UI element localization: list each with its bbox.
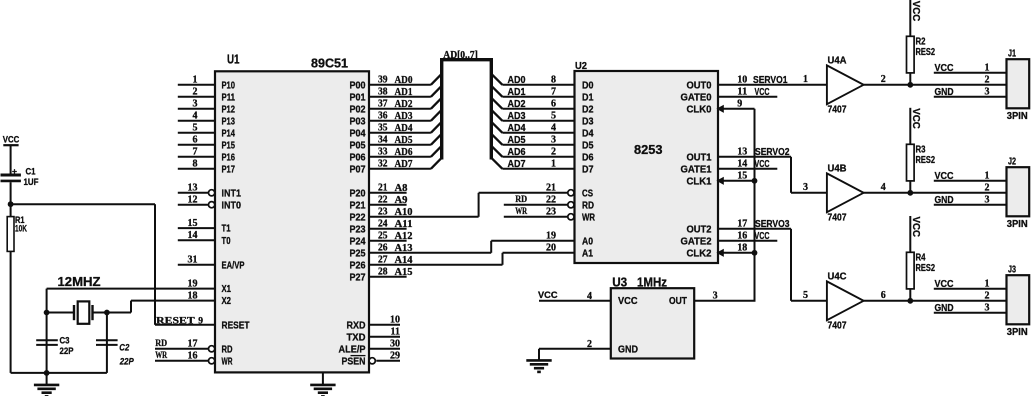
ground (U1)	[310, 372, 335, 396]
label 89C51	[311, 56, 348, 70]
svg-text:18: 18	[188, 290, 198, 301]
svg-text:AD6: AD6	[508, 147, 526, 158]
svg-text:+: +	[12, 166, 17, 176]
node: CLK2 junction	[752, 250, 758, 256]
U2 pin 10 OUT0 / net SERVO1	[687, 75, 827, 92]
svg-text:RESET: RESET	[156, 317, 195, 327]
wire: AD3 bus exit (right)	[491, 110, 502, 121]
svg-text:GATE0: GATE0	[681, 92, 712, 103]
svg-text:D0: D0	[582, 80, 594, 91]
svg-text:2: 2	[985, 290, 990, 301]
svg-text:WR: WR	[515, 207, 527, 217]
U1 pin 13 INT1	[178, 183, 242, 200]
svg-text:CLK1: CLK1	[687, 176, 712, 187]
svg-text:P06: P06	[350, 152, 366, 163]
U1 pin 3 P12	[178, 99, 236, 116]
wire: A14 to A1	[502, 253, 504, 265]
svg-text:U4A: U4A	[828, 55, 847, 66]
wire: AD4 bus entry (left)	[431, 122, 442, 133]
label 12MHZ	[58, 274, 101, 289]
svg-text:AD0: AD0	[508, 75, 526, 86]
IC U3 1MHz oscillator body	[611, 288, 694, 358]
svg-text:3: 3	[985, 86, 990, 97]
node: R3 output junction	[907, 190, 913, 196]
node: CLK1 junction	[752, 178, 758, 184]
svg-text:P25: P25	[350, 248, 366, 259]
U1 pin 9 RESET	[222, 320, 250, 331]
svg-text:D3: D3	[582, 116, 594, 127]
U2 pin 8 D0 / net AD0	[502, 75, 593, 92]
svg-text:U4B: U4B	[828, 163, 847, 174]
svg-text:10: 10	[737, 75, 747, 86]
svg-text:TXD: TXD	[347, 332, 366, 343]
svg-text:6: 6	[551, 99, 556, 110]
U1 pin 23 P22 / net A10	[350, 207, 479, 224]
svg-text:P26: P26	[350, 260, 366, 271]
svg-text:RES2: RES2	[916, 47, 936, 58]
svg-text:3: 3	[551, 135, 556, 146]
svg-text:21: 21	[546, 183, 556, 194]
node: C1/R1/reset junction	[8, 201, 14, 207]
wire: AD3 bus entry (left)	[431, 110, 442, 121]
U1 pin 39 P00 / net AD0	[350, 75, 431, 92]
U2 pin 21 CS	[479, 183, 594, 200]
U1 pin 17 RD	[155, 339, 233, 356]
label U3 1MHz	[612, 274, 667, 289]
svg-text:P10: P10	[222, 80, 236, 91]
svg-text:8: 8	[551, 75, 556, 86]
svg-text:10: 10	[390, 315, 400, 326]
svg-text:26: 26	[378, 243, 388, 254]
connector J2 3PIN	[934, 157, 1029, 230]
svg-text:RD: RD	[155, 339, 167, 349]
svg-text:AD3: AD3	[508, 111, 526, 122]
svg-text:D4: D4	[582, 128, 594, 139]
svg-text:1: 1	[803, 74, 808, 85]
svg-text:AD4: AD4	[395, 123, 413, 134]
svg-text:OUT2: OUT2	[687, 224, 712, 235]
svg-text:AD6: AD6	[395, 147, 413, 158]
U1 pin 18 X2	[188, 290, 232, 307]
svg-text:P14: P14	[222, 128, 236, 139]
svg-text:OUT: OUT	[669, 296, 687, 307]
wire: AD6 bus entry (left)	[431, 146, 442, 157]
svg-text:25: 25	[378, 231, 388, 242]
label 8253	[634, 142, 663, 157]
svg-text:D7: D7	[582, 164, 594, 175]
svg-text:AD3: AD3	[395, 111, 413, 122]
U2 pin 16 GATE2 / net VCC	[681, 231, 778, 248]
ground (U3)	[526, 349, 551, 372]
svg-text:9: 9	[737, 99, 742, 110]
svg-text:PSEN: PSEN	[342, 356, 366, 367]
svg-text:D6: D6	[582, 152, 594, 163]
U2 pin 2 D6 / net AD6	[502, 147, 593, 164]
svg-text:17: 17	[188, 339, 198, 350]
svg-text:30: 30	[390, 339, 400, 350]
svg-text:23: 23	[378, 207, 388, 218]
wire: A13 to A0	[490, 241, 492, 253]
svg-text:2: 2	[587, 339, 592, 350]
resistor R4 RES2 pullup	[907, 216, 936, 301]
svg-text:7407: 7407	[828, 320, 847, 331]
svg-text:P02: P02	[350, 104, 366, 115]
U3 pin 4 VCC / net VCC	[538, 290, 638, 307]
svg-text:J2: J2	[1008, 157, 1016, 168]
U2 pin 9 CLK0	[687, 99, 755, 116]
svg-text:14: 14	[188, 230, 198, 241]
node: R2 output junction	[907, 82, 913, 88]
U2 pin 20 A1	[503, 243, 594, 260]
svg-text:13: 13	[188, 183, 198, 194]
wire: AD1 bus exit (right)	[491, 86, 502, 97]
svg-text:RD: RD	[222, 344, 233, 355]
svg-text:R3: R3	[916, 145, 926, 156]
svg-text:P20: P20	[350, 188, 366, 199]
svg-text:EA/VP: EA/VP	[222, 260, 245, 271]
svg-text:U3: U3	[612, 274, 627, 289]
svg-text:3PIN: 3PIN	[1007, 111, 1028, 122]
svg-text:31: 31	[188, 255, 198, 266]
svg-text:AD7: AD7	[395, 159, 413, 170]
U1 pin 2 P11	[178, 87, 236, 104]
svg-text:2: 2	[985, 182, 990, 193]
wire: junction to reset vertical	[11, 203, 155, 205]
svg-text:U2: U2	[575, 60, 587, 72]
U1 pin 27 P26 / net A14	[350, 255, 503, 272]
svg-text:1: 1	[985, 278, 990, 289]
svg-text:22: 22	[546, 195, 556, 206]
crystal Y1 12MHZ	[47, 301, 107, 323]
svg-text:R2: R2	[916, 37, 926, 48]
svg-text:1: 1	[985, 62, 990, 73]
U2 pin 1 D7 / net AD7	[502, 159, 593, 176]
svg-text:WR: WR	[155, 351, 167, 361]
svg-text:CS: CS	[582, 188, 593, 199]
svg-text:J1: J1	[1008, 49, 1016, 60]
svg-text:3: 3	[193, 99, 198, 110]
svg-text:12MHZ: 12MHZ	[58, 274, 101, 289]
svg-text:89C51: 89C51	[311, 56, 348, 70]
bus AD[0..7]	[442, 58, 492, 160]
svg-text:AD5: AD5	[508, 135, 526, 146]
wire: crystal right leg vertical	[106, 313, 108, 373]
svg-text:AD2: AD2	[395, 99, 413, 110]
U2 pin 18 CLK2	[687, 243, 755, 260]
svg-text:A11: A11	[395, 219, 413, 230]
svg-text:GND: GND	[935, 303, 954, 314]
svg-text:3: 3	[985, 194, 990, 205]
wire: ground rail under crystal circuit	[11, 372, 107, 374]
U1 pin 7 P16	[178, 147, 236, 164]
svg-text:P13: P13	[222, 116, 236, 127]
wire: SERVO2 vertical to U4B	[791, 157, 827, 193]
svg-text:VCC: VCC	[935, 171, 954, 182]
wire: X1 wire from crystal left leg to U1	[47, 288, 215, 290]
U1 pin 36 P03 / net AD3	[350, 111, 431, 128]
svg-text:D5: D5	[582, 140, 594, 151]
U1 pin 30 ALE/P	[339, 339, 401, 356]
svg-text:WR: WR	[222, 356, 234, 367]
svg-text:RXD: RXD	[347, 320, 366, 331]
U1 pin 29 PSEN	[342, 351, 401, 368]
svg-text:T1: T1	[222, 224, 231, 235]
svg-text:A8: A8	[395, 183, 408, 194]
svg-text:C1: C1	[26, 166, 37, 177]
svg-text:3: 3	[713, 291, 718, 302]
svg-text:15: 15	[737, 171, 747, 182]
svg-text:VCC: VCC	[910, 1, 921, 22]
U2 pin 17 OUT2 / net SERVO3	[687, 219, 792, 236]
svg-text:CLK0: CLK0	[687, 104, 712, 115]
svg-text:GATE2: GATE2	[681, 236, 712, 247]
svg-text:3PIN: 3PIN	[1007, 327, 1028, 338]
U2 pin 11 GATE0 / net VCC	[681, 87, 778, 104]
wire: AD5 bus exit (right)	[491, 134, 502, 145]
svg-text:AD0: AD0	[395, 75, 413, 86]
svg-text:2: 2	[193, 87, 198, 98]
wire: crystal left leg vertical	[46, 289, 48, 373]
svg-text:A0: A0	[582, 236, 593, 247]
svg-text:A1: A1	[582, 248, 593, 259]
buffer U4B 7407	[803, 163, 886, 223]
svg-text:RD: RD	[582, 200, 594, 211]
wire: U4A output to J1	[864, 84, 1007, 86]
wire: AD7 bus exit (right)	[491, 158, 502, 169]
svg-text:VCC: VCC	[910, 108, 921, 129]
svg-text:23: 23	[546, 207, 556, 218]
U1 pin 16 WR	[155, 351, 233, 368]
svg-text:38: 38	[378, 87, 388, 98]
svg-text:5: 5	[803, 290, 808, 301]
svg-text:3: 3	[803, 182, 808, 193]
resistor R1 10K	[7, 204, 27, 373]
svg-text:29: 29	[390, 351, 400, 362]
svg-text:19: 19	[188, 278, 198, 289]
svg-text:A9: A9	[395, 195, 408, 206]
U1 pin 22 P21 / net A9	[350, 195, 408, 212]
svg-text:U1: U1	[227, 53, 240, 67]
svg-text:SERVO2: SERVO2	[755, 147, 790, 158]
buffer U4A 7407	[803, 55, 886, 115]
svg-text:A14: A14	[395, 255, 413, 266]
wire: AD1 bus entry (left)	[431, 86, 442, 97]
svg-text:7407: 7407	[828, 212, 847, 223]
wire: U4C output to J3	[864, 300, 1007, 302]
U2 pin 3 D5 / net AD5	[502, 135, 593, 152]
svg-text:12: 12	[188, 195, 198, 206]
svg-text:D2: D2	[582, 104, 594, 115]
U2 pin 4 D4 / net AD4	[502, 123, 593, 140]
svg-text:2: 2	[881, 74, 886, 85]
svg-text:INT1: INT1	[222, 188, 242, 199]
U1 pin 15 T1	[178, 218, 231, 235]
svg-text:VCC: VCC	[618, 296, 638, 307]
svg-text:AD4: AD4	[508, 123, 526, 134]
svg-text:J3: J3	[1008, 265, 1016, 276]
svg-text:20: 20	[546, 243, 556, 254]
svg-text:6: 6	[193, 135, 198, 146]
svg-text:2: 2	[551, 147, 556, 158]
svg-text:VCC: VCC	[935, 63, 954, 74]
svg-text:AD7: AD7	[508, 159, 526, 170]
svg-text:4: 4	[587, 291, 592, 302]
svg-text:P17: P17	[222, 164, 236, 175]
svg-text:P12: P12	[222, 104, 236, 115]
svg-text:VCC: VCC	[538, 290, 558, 301]
net label RD (left)	[155, 339, 167, 349]
svg-text:37: 37	[378, 99, 388, 110]
svg-text:14: 14	[737, 159, 747, 170]
svg-text:R4: R4	[916, 253, 926, 264]
svg-text:1: 1	[985, 170, 990, 181]
svg-text:35: 35	[378, 123, 388, 134]
svg-text:27: 27	[378, 255, 388, 266]
svg-text:GND: GND	[935, 87, 954, 98]
svg-text:AD1: AD1	[395, 87, 413, 98]
capacitor C3 22P	[36, 336, 74, 357]
svg-text:5: 5	[551, 111, 556, 122]
capacitor C1 1UF (polarized)	[1, 166, 39, 204]
U1 pin 12 INT0	[178, 195, 242, 212]
U2 pin 19 A0	[491, 231, 593, 248]
svg-text:24: 24	[378, 219, 388, 230]
svg-text:OUT1: OUT1	[687, 152, 712, 163]
svg-text:32: 32	[378, 159, 388, 170]
wire: RESET wire into U1	[155, 324, 215, 326]
resistor R3 RES2 pullup	[907, 108, 936, 193]
svg-text:7: 7	[551, 87, 556, 98]
svg-text:CLK2: CLK2	[687, 248, 712, 259]
svg-text:P01: P01	[350, 92, 366, 103]
label U2	[575, 60, 587, 72]
svg-text:SERVO3: SERVO3	[755, 219, 790, 230]
U1 pin 10 RXD	[347, 315, 401, 332]
svg-text:OUT0: OUT0	[687, 80, 712, 91]
svg-text:VCC: VCC	[3, 135, 20, 146]
svg-text:5: 5	[193, 123, 198, 134]
ground (crystal circuit)	[34, 373, 59, 396]
svg-text:SERVO1: SERVO1	[753, 75, 788, 86]
svg-text:18: 18	[737, 243, 747, 254]
wire: crystal right node to X2 pin	[107, 301, 215, 313]
U1 pin 11 TXD	[347, 327, 401, 344]
wire: AD6 bus exit (right)	[491, 146, 502, 157]
svg-text:9: 9	[198, 317, 203, 327]
svg-text:P07: P07	[350, 164, 366, 175]
svg-text:4: 4	[193, 111, 198, 122]
U2 pin 14 GATE1 / net VCC	[681, 159, 778, 176]
connector J1 3PIN	[934, 49, 1029, 122]
wire: AD0 bus entry (left)	[431, 74, 442, 85]
svg-text:GND: GND	[935, 195, 954, 206]
wire: reset vertical down to RESET pin	[154, 204, 156, 325]
svg-text:AD5: AD5	[395, 135, 413, 146]
svg-text:A13: A13	[395, 243, 413, 254]
power symbol VCC (left rail)	[3, 135, 20, 174]
svg-text:15: 15	[188, 218, 198, 229]
svg-text:VCC: VCC	[755, 87, 770, 98]
svg-text:2: 2	[985, 74, 990, 85]
svg-text:P05: P05	[350, 140, 366, 151]
svg-text:16: 16	[737, 231, 747, 242]
svg-text:1UF: 1UF	[24, 177, 39, 188]
U1 pin 8 P17	[178, 159, 236, 176]
svg-text:GND: GND	[618, 345, 638, 356]
U1 pin 24 P23 / net A11	[350, 219, 413, 236]
svg-text:P23: P23	[350, 224, 366, 235]
U1 pin 4 P13	[178, 111, 236, 128]
net label WR (left)	[155, 351, 167, 361]
U1 pin 21 P20 / net A8	[350, 183, 408, 200]
wire: clock distribution vertical	[754, 109, 756, 301]
U1 pin 35 P04 / net AD4	[350, 123, 431, 140]
U2 pin 7 D1 / net AD1	[502, 87, 593, 104]
svg-text:36: 36	[378, 111, 388, 122]
svg-text:4: 4	[881, 182, 886, 193]
U1 pin 19 X1	[188, 278, 232, 295]
svg-text:11: 11	[737, 87, 747, 98]
U1 pin 1 P10	[178, 75, 236, 92]
svg-text:1MHz: 1MHz	[637, 274, 667, 289]
svg-text:1: 1	[551, 159, 556, 170]
svg-text:X1: X1	[222, 284, 232, 295]
buffer U4C 7407	[803, 271, 886, 331]
svg-text:AD2: AD2	[508, 99, 526, 110]
svg-text:39: 39	[378, 75, 388, 86]
wire: AD4 bus exit (right)	[491, 122, 502, 133]
U2 pin 5 D3 / net AD3	[502, 111, 593, 128]
svg-text:AD1: AD1	[508, 87, 526, 98]
svg-text:C2: C2	[119, 342, 130, 353]
svg-text:4: 4	[551, 123, 556, 134]
svg-text:RD: RD	[515, 195, 527, 205]
U1 pin 14 T0	[178, 230, 231, 247]
svg-text:P03: P03	[350, 116, 366, 127]
svg-text:P15: P15	[222, 140, 236, 151]
label U1	[227, 53, 240, 67]
U2 pin 23 WR / net WR	[504, 207, 596, 224]
svg-text:22P: 22P	[119, 357, 134, 368]
svg-text:P11: P11	[222, 92, 236, 103]
wire: SERVO3 vertical to U4C	[791, 229, 827, 301]
svg-text:T0: T0	[222, 236, 231, 247]
svg-text:8: 8	[193, 159, 198, 170]
U2 pin 15 CLK1	[687, 171, 755, 188]
U1 pin 6 P15	[178, 135, 236, 152]
svg-text:RES2: RES2	[916, 263, 936, 274]
svg-text:1: 1	[193, 75, 198, 86]
U1 pin 37 P02 / net AD2	[350, 99, 431, 116]
svg-text:13: 13	[737, 147, 747, 158]
svg-text:WR: WR	[582, 212, 596, 223]
svg-text:GATE1: GATE1	[681, 164, 712, 175]
wire: AD7 bus entry (left)	[431, 158, 442, 169]
svg-text:33: 33	[378, 147, 388, 158]
svg-text:3PIN: 3PIN	[1007, 219, 1028, 230]
connector J3 3PIN	[934, 265, 1029, 338]
U1 pin 5 P14	[178, 123, 236, 140]
svg-text:7: 7	[193, 147, 198, 158]
svg-text:7407: 7407	[828, 104, 847, 115]
svg-text:34: 34	[378, 135, 388, 146]
U2 pin 13 OUT1 / net SERVO2	[687, 147, 792, 164]
svg-text:A12: A12	[395, 231, 413, 242]
svg-text:P24: P24	[350, 236, 366, 247]
wire: U4B output to J2	[864, 192, 1007, 194]
node: R4 output junction	[907, 298, 913, 304]
op IC U1 89C51 body	[215, 71, 369, 372]
